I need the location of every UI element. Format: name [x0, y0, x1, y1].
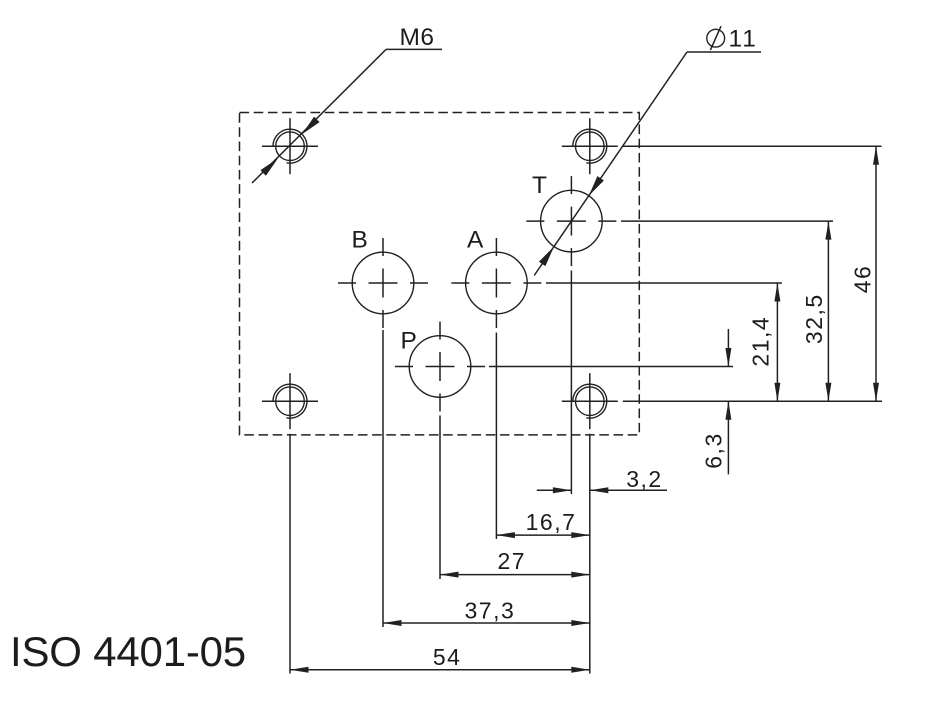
label T — [532, 172, 547, 199]
extension line bottom row — [623, 400, 882, 402]
label dia 11 — [707, 26, 758, 53]
svg-text:P: P — [401, 328, 417, 355]
svg-text:B: B — [352, 227, 368, 254]
centerline B column — [382, 330, 384, 627]
svg-text:46: 46 — [849, 265, 875, 294]
centerline A column — [495, 333, 497, 540]
extension line AB row — [546, 282, 782, 284]
mounting hole M6 bottom-left — [262, 373, 318, 429]
svg-text:T: T — [532, 172, 547, 199]
port hole P — [395, 322, 485, 412]
dimension 46 text — [849, 265, 875, 294]
leader line dia11 — [534, 52, 761, 276]
title ISO 4401-05 — [10, 628, 246, 675]
svg-text:ISO 4401-05: ISO 4401-05 — [10, 628, 246, 675]
dimension 21,4 text — [748, 316, 774, 367]
centerline left column — [289, 434, 291, 674]
svg-text:16,7: 16,7 — [526, 509, 577, 535]
dimension 54 line — [290, 667, 590, 673]
dimension 37,3 line — [383, 620, 590, 626]
dimension 32,5 text — [801, 293, 827, 344]
extension line P row — [489, 366, 733, 368]
svg-text:6,3: 6,3 — [701, 432, 727, 468]
dimension 27 line — [440, 572, 590, 578]
extension line top row — [623, 145, 882, 147]
svg-text:11: 11 — [729, 26, 758, 53]
centerline P column — [439, 416, 441, 580]
mounting hole M6 top-left — [262, 118, 318, 174]
dimension 27 text — [498, 548, 527, 574]
centerline T column — [570, 271, 572, 495]
mounting hole M6 top-right — [562, 118, 618, 174]
dimension 16,7 line — [496, 532, 589, 538]
leader arrowheads M6 — [260, 117, 319, 176]
svg-text:54: 54 — [433, 644, 462, 670]
svg-text:32,5: 32,5 — [801, 293, 827, 344]
dimension 46 line — [873, 146, 879, 401]
dimension 6,3 text — [701, 432, 727, 468]
svg-text:A: A — [467, 227, 484, 254]
dimension 3,2 lines — [537, 487, 667, 493]
mounting plate outline (dashed) — [240, 113, 640, 435]
svg-text:3,2: 3,2 — [626, 466, 662, 492]
dimension 6,3 lines — [725, 329, 731, 474]
mounting hole M6 bottom-right — [562, 373, 618, 429]
leader arrowheads dia11 — [539, 176, 604, 266]
dimension 21,4 line — [774, 283, 780, 401]
svg-text:21,4: 21,4 — [748, 316, 774, 367]
port hole B — [338, 238, 428, 328]
label A — [467, 227, 484, 254]
dimension 37,3 text — [465, 598, 516, 624]
dimension 16,7 text — [526, 509, 577, 535]
centerline right column — [589, 434, 591, 674]
svg-text:37,3: 37,3 — [465, 598, 516, 624]
dimension 32,5 line — [825, 221, 831, 401]
dimension 54 text — [433, 644, 462, 670]
dimension 3,2 text — [626, 466, 662, 492]
port hole A — [451, 238, 541, 328]
leader line M6 — [252, 49, 442, 183]
extension line T row — [621, 220, 833, 222]
port hole T — [526, 176, 616, 266]
label P — [401, 328, 417, 355]
svg-text:M6: M6 — [400, 24, 435, 51]
svg-text:27: 27 — [498, 548, 527, 574]
label M6 — [400, 24, 435, 51]
label B — [352, 227, 368, 254]
